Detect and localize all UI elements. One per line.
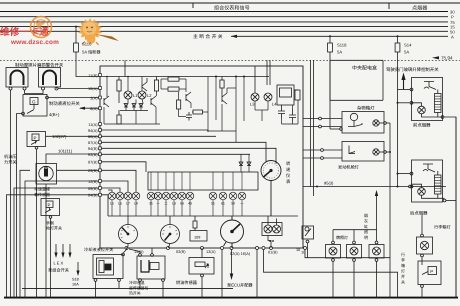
svg-text:93(B): 93(B) (88, 152, 98, 157)
svg-text:驾驶员门玻璃升降控制开关: 驾驶员门玻璃升降控制开关 (386, 67, 439, 72)
section tick left (192, 3, 194, 8)
watermark stamp (31, 17, 52, 38)
wire oil switch to ground (36, 149, 38, 298)
svg-text:5A: 5A (337, 50, 342, 55)
transistor Q1 (142, 78, 147, 91)
svg-text:灯: 灯 (401, 269, 405, 274)
svg-text:仪: 仪 (286, 173, 291, 178)
svg-text:P: P (34, 136, 37, 141)
svg-text:10(A): 10(A) (88, 86, 98, 91)
wire pin 10 right (305, 250, 390, 298)
wire middle column (221, 104, 223, 131)
svg-text:关: 关 (401, 280, 405, 285)
left edge pin stubs (99, 74, 102, 197)
wire switch down to ground (22, 114, 24, 116)
license plate lamps (326, 190, 385, 299)
long verticals right of cluster (303, 60, 446, 196)
svg-text:www.dzsc.com: www.dzsc.com (10, 39, 59, 46)
wire lamp bottoms to diodes (127, 99, 129, 103)
svg-text:开: 开 (401, 274, 405, 279)
resistor R1 (117, 77, 121, 104)
wire ECU arrow (231, 250, 233, 275)
svg-text:行: 行 (401, 252, 405, 257)
coolant temp sensor (129, 248, 168, 299)
transistor Q4 (186, 92, 191, 103)
three arrows to combination switch (55, 244, 57, 256)
staircase wires to lamp row (101, 162, 146, 216)
svg-text:S116: S116 (82, 42, 92, 47)
svg-text:87(A): 87(A) (88, 140, 98, 145)
lamp box N3 (369, 245, 384, 259)
svg-text:灰: 灰 (364, 219, 368, 224)
svg-text:力开关: 力开关 (4, 160, 17, 165)
svg-text:101(11): 101(11) (58, 149, 73, 154)
bus 30 (0, 11, 448, 13)
coolant temp gauge (119, 216, 138, 248)
wire sensor to pin via 101(11) (46, 154, 100, 164)
wires (398, 89, 411, 91)
lamp L2 (138, 91, 146, 99)
module inner verticals (151, 172, 242, 190)
svg-text:04(B): 04(B) (88, 193, 98, 198)
lamp (418, 106, 426, 114)
regulator box 109 (190, 216, 207, 241)
lamp module box (148, 172, 258, 190)
svg-text:109: 109 (194, 236, 200, 240)
wire sensor to pin 10(A) (57, 87, 101, 89)
switch T (423, 164, 433, 169)
watermark mascot (78, 18, 119, 45)
svg-text:制动摩擦片磨损警告开关: 制动摩擦片磨损警告开关 (15, 63, 64, 68)
lamp L4 (264, 93, 272, 101)
svg-text:维修一卡通: 维修一卡通 (0, 26, 49, 38)
bus P (0, 16, 448, 18)
svg-text:11(B): 11(B) (88, 73, 98, 78)
bus 31b partial (22, 287, 233, 289)
transistor Q5 (222, 88, 227, 104)
svg-text:表: 表 (286, 179, 291, 184)
wire diode bottoms rail (120, 110, 148, 112)
svg-text:P: P (48, 203, 51, 208)
lamp row labels (110, 201, 244, 205)
svg-text:02(A) 16(A): 02(A) 16(A) (230, 251, 251, 256)
arrow up door switch (401, 73, 405, 90)
svg-text:L2: L2 (147, 93, 152, 98)
inner wires (412, 103, 443, 117)
wear sensor left box (6, 68, 28, 88)
svg-text:后点烟器: 后点烟器 (410, 211, 428, 216)
svg-text:冷却液液位开关: 冷却液液位开关 (84, 247, 114, 252)
resistor R5 (177, 100, 181, 109)
bottom edge pins (125, 247, 307, 250)
oil pressure switch (27, 132, 100, 299)
svg-text:P: P (430, 269, 433, 274)
heater coil (435, 94, 442, 113)
label coolant temp sensor (129, 280, 149, 295)
svg-text:50: 50 (450, 29, 455, 34)
svg-text:5A: 5A (404, 50, 409, 55)
svg-text:30: 30 (450, 9, 455, 14)
fuel gauge (161, 216, 180, 248)
svg-text:至ECU并配器: 至ECU并配器 (227, 283, 253, 288)
svg-text:缸: 缸 (364, 224, 368, 229)
diode D5 (247, 161, 251, 169)
svg-text:箱: 箱 (401, 263, 405, 268)
svg-text:12(B): 12(B) (88, 179, 98, 184)
wire pin 23(B) left-down (99, 169, 101, 171)
svg-text:发动机舱灯: 发动机舱灯 (338, 165, 360, 170)
long wires from pins to left and down (6, 170, 101, 298)
svg-text:牌照灯: 牌照灯 (336, 235, 348, 240)
heater coil (435, 175, 442, 194)
svg-text:23(B): 23(B) (88, 168, 98, 173)
wire pin 257 down (256, 250, 258, 298)
luggage lamp switch (418, 261, 441, 299)
lamp row ground rail (108, 200, 298, 216)
svg-text:94(A): 94(A) (88, 128, 98, 133)
lamp L3 (251, 86, 259, 101)
svg-text:机油压: 机油压 (4, 154, 17, 159)
front cigarette lighter (397, 78, 458, 299)
wire fuse drop S118 (329, 36, 331, 43)
wire pin 01B right (264, 250, 398, 298)
wire fuse drop S14 (397, 36, 399, 43)
wire pin 13A down (221, 250, 399, 299)
svg-text:主断合开关: 主断合开关 (193, 33, 224, 40)
twin illumination lamps box (262, 216, 282, 248)
wire switch to pin 3(A) (48, 97, 100, 99)
wire bus-P drop into cluster (101, 60, 270, 86)
ground bus (4, 297, 458, 299)
resistor R3 (168, 77, 179, 81)
svg-text:01(B): 01(B) (268, 249, 278, 254)
svg-text:烟: 烟 (364, 213, 368, 218)
svg-text:10: 10 (296, 248, 300, 252)
svg-text:09(B): 09(B) (88, 186, 98, 191)
svg-text:热开关: 热开关 (129, 291, 141, 296)
svg-text:照: 照 (364, 230, 368, 235)
wire N3 up with arrow (376, 192, 378, 241)
label ashtray illumination vertical (364, 213, 368, 240)
diode D2 (132, 103, 136, 109)
svg-text:明: 明 (364, 235, 368, 240)
central electric box outline (330, 60, 383, 100)
svg-text:S14: S14 (404, 43, 412, 48)
engine compartment lamp (342, 142, 390, 162)
watermark red text (0, 26, 59, 46)
resistor R8 (220, 77, 224, 89)
wire pin 04(B) left-down (7, 195, 101, 298)
wire oil switch to pin 86(A) (46, 135, 101, 137)
switch T (424, 82, 434, 87)
svg-text:李: 李 (401, 258, 405, 263)
svg-text:至组合开关: 至组合开关 (48, 267, 70, 272)
dashed central-box border (0, 59, 460, 61)
fuse S116 (74, 43, 79, 52)
svg-text:行李箱灯: 行李箱灯 (434, 225, 452, 230)
entries from dashed line (124, 60, 126, 76)
wire Q4 collector (190, 103, 192, 108)
wire fuse drop S116 (75, 27, 77, 43)
bus 15 (0, 26, 448, 28)
arrow S18 (77, 262, 79, 274)
svg-text:S118: S118 (337, 43, 347, 48)
bus 50 (0, 30, 448, 32)
wire 4(B+) with arrow (79, 107, 100, 110)
svg-text:3(A): 3(A) (90, 95, 98, 100)
resistor R4 (168, 87, 179, 91)
svg-text:燃油传感器: 燃油传感器 (176, 280, 198, 285)
speedometer gauge (221, 216, 244, 248)
svg-text:动灯开关: 动灯开关 (46, 226, 62, 231)
transistor Q2 (104, 96, 109, 107)
svg-text:组合仪表和信号: 组合仪表和信号 (214, 4, 250, 11)
wire 95(3) (303, 186, 446, 188)
lamp L1 (124, 91, 132, 99)
wire rail taps (106, 77, 108, 98)
svg-text:L4: L4 (272, 102, 277, 107)
lamp (418, 188, 426, 196)
svg-text:03(B): 03(B) (176, 249, 186, 254)
label luggage lamp switch vertical (401, 252, 405, 285)
left pin labels (88, 73, 98, 198)
wire R2 to Q3 (156, 91, 158, 96)
svg-text:L1: L1 (133, 93, 138, 98)
luggage compartment lamp (417, 215, 433, 261)
fuse S118 (328, 43, 333, 52)
bus 75 (0, 21, 448, 23)
pin feed rails (101, 130, 276, 164)
tachometer gauge (261, 161, 281, 217)
svg-text:转: 转 (286, 161, 291, 166)
wire sensor to pin 23(B) (57, 169, 101, 171)
bottom pin labels (134, 249, 306, 256)
wear sensor right box (39, 68, 61, 88)
bridge wire (333, 229, 377, 231)
fuse S14 (395, 43, 400, 52)
coolant level switch (93, 248, 127, 299)
svg-text:速: 速 (286, 167, 291, 172)
resistor R6 (193, 110, 203, 114)
svg-text:102(27): 102(27) (52, 134, 67, 139)
cluster inner top rail (101, 76, 269, 78)
svg-text:4(B+): 4(B+) (49, 112, 60, 117)
indicator lamp row (108, 192, 246, 200)
diode D3 (139, 103, 143, 109)
svg-text:表传感器: 表传感器 (34, 192, 50, 197)
fuel sensor (189, 248, 214, 299)
svg-text:95(3): 95(3) (324, 180, 334, 185)
speedometer sensor (36, 154, 100, 299)
svg-text:L3: L3 (250, 102, 255, 107)
svg-text:杂物箱灯: 杂物箱灯 (357, 106, 375, 111)
svg-text:94(B): 94(B) (88, 146, 98, 151)
svg-text:点烟器: 点烟器 (412, 4, 427, 11)
cluster internal interconnect wires (104, 76, 298, 173)
svg-text:L E X: L E X (54, 261, 64, 266)
lid switch (302, 226, 314, 258)
label tachometer vertical (286, 161, 291, 184)
instrument cluster box (100, 66, 303, 248)
wire pin 09(B) left-down (14, 188, 100, 298)
wire sensor down (45, 184, 47, 298)
bus A (231, 35, 448, 37)
connectors (410, 88, 413, 91)
wires lamps L3 L4 (254, 101, 256, 110)
section tick right (388, 3, 390, 9)
svg-text:制动液液位开关: 制动液液位开关 (49, 101, 80, 106)
wire series link (25, 90, 44, 94)
svg-text:97(B): 97(B) (88, 160, 98, 165)
capacitor C1 (186, 112, 192, 121)
svg-text:8(A): 8(A) (90, 106, 98, 111)
wire right feeder vertical (389, 123, 391, 258)
rear cigarette lighter (397, 160, 457, 202)
handbrake switch (41, 199, 60, 299)
lamp box N2 (347, 245, 362, 259)
capacitor C3 (289, 109, 296, 122)
svg-text:13(A): 13(A) (206, 249, 216, 254)
wire R3 R4 ends (161, 78, 168, 80)
diode D1 (124, 103, 128, 109)
svg-text:A: A (451, 35, 454, 40)
wire sensor to ground (10, 90, 12, 298)
wires cluster to glovebox lamp (303, 118, 342, 120)
brake fluid level switch (16, 95, 100, 299)
svg-text:11(A): 11(A) (88, 122, 98, 127)
resistor R2 (154, 77, 158, 92)
svg-text:G: G (32, 99, 36, 104)
wires (398, 173, 411, 175)
stabilizer connections (281, 104, 283, 106)
lamp box N1 (326, 245, 341, 259)
wire lower rail (104, 123, 160, 125)
svg-text:前点烟器: 前点烟器 (413, 123, 431, 128)
svg-text:75,94: 75,94 (441, 56, 453, 61)
svg-text:86(A): 86(A) (88, 134, 98, 139)
top border line (0, 2, 460, 4)
svg-text:中央配电盒: 中央配电盒 (352, 65, 377, 72)
diode D4 (239, 161, 243, 169)
connectors (410, 172, 413, 175)
svg-text:10A: 10A (72, 282, 79, 286)
wires cluster to engine lamp (303, 149, 342, 151)
svg-text:5A 熔断器: 5A 熔断器 (82, 50, 101, 55)
voltage stabilizer U1 (277, 85, 300, 105)
capacitor C2 (278, 105, 285, 119)
wire pin 12(B) left-down (25, 181, 100, 298)
svg-text:S18: S18 (72, 277, 79, 281)
transistor Q3 (151, 96, 156, 107)
resistor R7 (117, 110, 121, 124)
